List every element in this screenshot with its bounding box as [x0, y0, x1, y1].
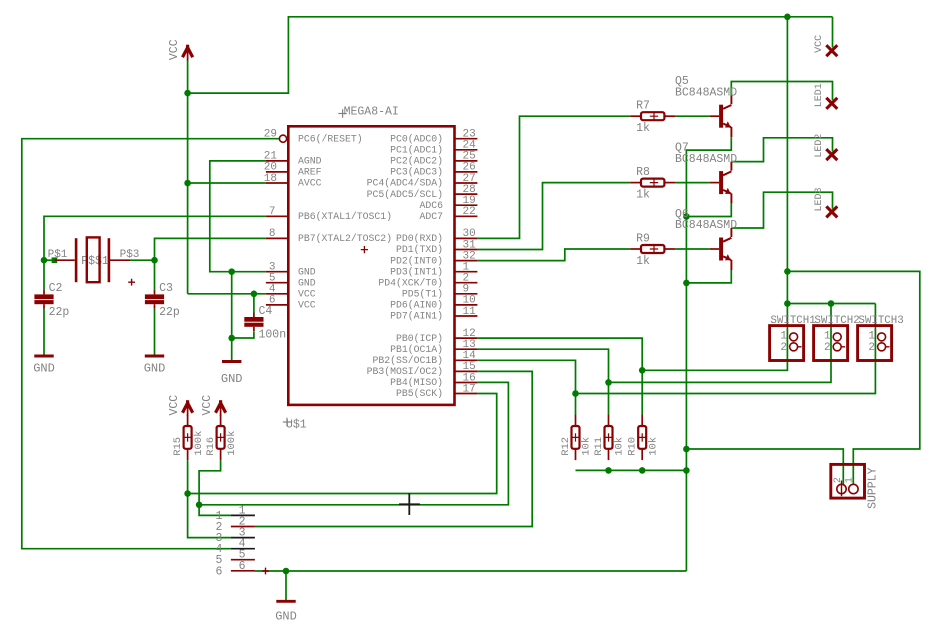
svg-text:18: 18	[264, 173, 277, 185]
svg-text:GND: GND	[144, 362, 166, 376]
wire PB0 to R10	[477, 338, 642, 415]
pin 24 PC1(ADC1) stub	[455, 149, 478, 151]
svg-text:R7: R7	[636, 100, 650, 113]
resistor R9	[630, 245, 675, 253]
wire pulldown rail	[576, 469, 687, 471]
pin 14 PB2(SS/OC1B) stub	[455, 359, 478, 361]
wire Q7 emitter	[686, 204, 731, 217]
wire R16 bottom to connector pin 1	[199, 460, 231, 515]
transistor Q6	[710, 228, 732, 270]
capacitor C2	[34, 290, 53, 308]
wire C4 bottom to GND	[232, 331, 254, 338]
svg-text:C4: C4	[259, 305, 273, 318]
junction PB1/switch2	[605, 379, 612, 386]
switch SWITCH1	[770, 326, 804, 361]
svg-text:7: 7	[269, 206, 276, 218]
transistor Q7	[710, 162, 732, 204]
svg-text:1k: 1k	[636, 122, 650, 135]
wire to bottom GND symbol	[285, 571, 287, 600]
pin 8 PB7(XTAL2/TOSC2) stub	[266, 237, 288, 239]
wire C2 to GND	[43, 308, 45, 354]
svg-text:LED2: LED2	[814, 134, 825, 158]
junction bottom GND	[283, 568, 290, 575]
svg-text:PD2(INT0): PD2(INT0)	[390, 255, 443, 266]
svg-text:100k: 100k	[193, 431, 205, 456]
svg-text:R9: R9	[636, 233, 650, 246]
svg-text:BC848ASMD: BC848ASMD	[675, 153, 737, 166]
junction AVCC	[184, 180, 191, 187]
wire GND to SUPPLY pin 2	[686, 449, 843, 484]
pin 1 PD3(INT1) stub	[455, 271, 478, 273]
svg-text:BC848ASMD: BC848ASMD	[675, 219, 737, 232]
junction R16/MISO	[196, 502, 203, 509]
junction VCC top left	[184, 90, 191, 97]
IC origin cross	[361, 246, 368, 253]
resistor R11	[605, 415, 613, 461]
net port LED3	[826, 206, 837, 217]
svg-text:10k: 10k	[581, 437, 593, 456]
pin 19 ADC6 stub	[455, 204, 478, 206]
wire switch top rail	[787, 303, 875, 305]
wire SWITCH3 to R12/PB2	[576, 304, 876, 394]
IC name origin cross	[338, 109, 346, 117]
junction XTAL2	[151, 257, 158, 264]
svg-text:PC4(ADC4/SDA): PC4(ADC4/SDA)	[367, 178, 443, 189]
pin 15 PB3(MOSI/OC2) stub	[455, 370, 478, 372]
transistor Q5	[710, 95, 732, 137]
svg-text:PB0(ICP): PB0(ICP)	[396, 333, 443, 344]
wire XTAL1 pin7 to crystal/C2	[44, 216, 266, 290]
svg-text:R11: R11	[593, 437, 605, 456]
svg-text:6: 6	[239, 560, 246, 573]
junction switch rail 1	[784, 300, 791, 307]
wire VCC symbol to junction	[187, 60, 189, 93]
svg-text:6: 6	[215, 565, 222, 578]
svg-text:2: 2	[868, 342, 875, 354]
wire VCC to SUPPLY pin 1	[787, 271, 919, 483]
svg-text:PC0(ADC0): PC0(ADC0)	[390, 133, 443, 144]
crystal P$$1	[55, 238, 130, 282]
wire VCC to top rail	[188, 17, 833, 93]
junction C4/VCC	[251, 291, 258, 298]
switch SWITCH3	[858, 326, 892, 361]
ground under C3	[145, 355, 164, 358]
svg-text:2: 2	[780, 342, 787, 354]
svg-text:PB2(SS/OC1B): PB2(SS/OC1B)	[372, 355, 443, 366]
svg-text:PD0(RXD): PD0(RXD)	[396, 233, 443, 244]
pin 21 AGND stub	[266, 160, 288, 162]
resistor R16	[217, 415, 225, 461]
svg-text:10k: 10k	[614, 437, 626, 456]
pin 22 ADC7 stub	[455, 215, 478, 217]
svg-text:PD1(TXD): PD1(TXD)	[396, 244, 443, 255]
pin 32 PD2(INT0) stub	[455, 260, 478, 262]
pin 17 PB5(SCK) stub	[455, 393, 478, 395]
svg-text:PD4(XCK/T0): PD4(XCK/T0)	[378, 277, 443, 288]
wire Q6 emitter	[686, 270, 731, 283]
wire R8 to Q7 base	[675, 182, 709, 184]
svg-text:2: 2	[833, 477, 844, 483]
svg-text:1k: 1k	[636, 189, 650, 202]
svg-text:U$1: U$1	[286, 419, 307, 432]
resistor R15	[184, 415, 192, 461]
VCC supply symbol above R15	[183, 400, 193, 413]
IC value origin cross	[283, 418, 291, 426]
pin 7 PB6(XTAL1/TOSC1) stub	[266, 215, 288, 217]
pin 2 PD4(XCK/T0) stub	[455, 282, 478, 284]
svg-text:SWITCH3: SWITCH3	[858, 315, 903, 327]
svg-text:PD6(AIN0): PD6(AIN0)	[390, 300, 443, 311]
svg-text:2: 2	[824, 342, 831, 354]
svg-text:100k: 100k	[226, 431, 238, 456]
svg-text:PC3(ADC3): PC3(ADC3)	[390, 167, 443, 178]
pin 6 VCC stub	[266, 304, 288, 306]
VCC supply symbol top left	[183, 45, 193, 58]
wire top rail to VCC port	[832, 17, 834, 48]
svg-text:BC848ASMD: BC848ASMD	[675, 86, 737, 99]
svg-text:1: 1	[868, 330, 875, 342]
svg-text:VCC: VCC	[298, 289, 316, 300]
svg-text:17: 17	[463, 383, 476, 395]
junction XTAL1	[41, 257, 48, 264]
svg-text:SWITCH1: SWITCH1	[770, 315, 815, 327]
junction R10 bottom	[639, 467, 646, 474]
wire Q6 collector to LED3	[731, 192, 832, 228]
svg-text:PC5(ADC5/SCL): PC5(ADC5/SCL)	[367, 189, 443, 200]
net port LED2	[826, 149, 837, 160]
crystal origin cross	[128, 279, 135, 286]
pin 9 PD5(T1) stub	[455, 293, 478, 295]
svg-text:PD5(T1): PD5(T1)	[402, 289, 443, 300]
sheet origin cross	[399, 493, 420, 515]
junction R15/SCK	[184, 490, 191, 497]
resistor R12	[572, 415, 580, 461]
svg-text:R8: R8	[636, 166, 650, 179]
svg-text:PC6(/RESET): PC6(/RESET)	[298, 133, 363, 144]
pin 31 PD1(TXD) stub	[455, 249, 478, 251]
svg-text:R12: R12	[560, 437, 572, 456]
ground under C2	[34, 355, 53, 358]
wire PB1 to R11	[477, 349, 608, 415]
junction GND supply	[683, 446, 690, 453]
wire VCC vertical left	[187, 93, 189, 294]
wire C4 top	[253, 294, 255, 313]
wire PB3 MOSI to connector pin 2	[255, 371, 532, 526]
pin 25 PC2(ADC2) stub	[455, 160, 478, 162]
wire AGND pin21 to GND pin3	[210, 161, 266, 272]
svg-text:VCC: VCC	[168, 395, 181, 416]
pin 28 PC5(ADC5/SCL) stub	[455, 193, 478, 195]
pin 5 GND stub	[266, 282, 288, 284]
svg-text:PB6(XTAL1/TOSC1): PB6(XTAL1/TOSC1)	[298, 211, 392, 222]
ground under C4	[222, 360, 241, 363]
wire SWITCH2 to R11/PB1	[609, 304, 832, 383]
ground bottom	[276, 600, 295, 603]
wire C3 to GND	[154, 308, 156, 354]
svg-text:MEGA8-AI: MEGA8-AI	[344, 106, 399, 119]
connector pin 6 stub	[231, 570, 255, 572]
junction Q6 emitter	[683, 280, 690, 287]
junction top rail	[784, 13, 791, 20]
pin 29 PC6(/RESET) with inversion bubble	[279, 135, 286, 142]
net port LED1	[826, 98, 837, 109]
capacitor C4	[244, 313, 263, 331]
svg-text:P$$1: P$$1	[81, 255, 109, 268]
svg-text:VCC: VCC	[168, 39, 181, 60]
junction PB2/switch3	[572, 390, 579, 397]
wire VCC pin 4	[188, 293, 266, 295]
wire Q7 collector to LED2	[731, 138, 832, 162]
svg-text:SUPPLY: SUPPLY	[866, 467, 879, 509]
resistor R7	[630, 112, 675, 120]
pin 18 AVCC stub	[266, 182, 288, 184]
svg-text:C2: C2	[49, 282, 63, 295]
resistor R8	[630, 179, 675, 187]
net port VCC	[826, 45, 837, 56]
junction R11 bottom	[605, 467, 612, 474]
svg-text:ADC6: ADC6	[419, 200, 443, 211]
wire AVCC pin 18	[188, 182, 266, 184]
wire connector pin 6 to GND net	[255, 570, 687, 572]
junction switch rail 2	[828, 300, 835, 307]
svg-text:8: 8	[269, 228, 276, 240]
svg-text:LED3: LED3	[814, 187, 825, 211]
svg-text:22p: 22p	[49, 306, 70, 319]
wire to crystal pin P$1	[44, 259, 55, 261]
crystal body rectangle	[87, 237, 100, 282]
wire to GND symbol under C4	[231, 272, 233, 360]
resistor R10	[638, 415, 646, 461]
junction rail to GND vertical	[683, 467, 690, 474]
svg-text:R15: R15	[172, 437, 184, 456]
pin 23 PC0(ADC0) stub	[455, 138, 478, 140]
pin 3 GND stub	[266, 271, 288, 273]
svg-text:P$3: P$3	[120, 249, 140, 261]
svg-text:P$1: P$1	[48, 249, 68, 261]
svg-text:PD3(INT1): PD3(INT1)	[390, 266, 443, 277]
svg-text:GND: GND	[275, 610, 297, 624]
capacitor C3	[145, 290, 164, 308]
wire PB5 SCK to R15 node	[188, 394, 497, 494]
svg-text:PB7(XTAL2/TOSC2): PB7(XTAL2/TOSC2)	[298, 233, 392, 244]
junction Q7 emitter	[683, 213, 690, 220]
svg-text:PC1(ADC1): PC1(ADC1)	[390, 145, 443, 156]
wire Q5 collector to LED1	[731, 82, 832, 101]
pin 13 PB1(OC1A) stub	[455, 348, 478, 350]
wire R15 bottom to connector pin 3	[188, 460, 231, 537]
svg-text:GND: GND	[221, 372, 243, 386]
pin 27 PC4(ADC4/SDA) stub	[455, 182, 478, 184]
wire Q5 emitter down GND vertical	[686, 137, 731, 571]
wire PD2 to R9	[477, 249, 630, 261]
svg-text:VCC: VCC	[814, 35, 825, 53]
svg-text:PB4(MISO): PB4(MISO)	[390, 377, 443, 388]
pin 12 PB0(ICP) stub	[455, 337, 478, 339]
pin 30 PD0(RXD) stub	[455, 237, 478, 239]
wire PD0 to R7	[477, 116, 630, 238]
svg-text:AGND: AGND	[298, 156, 322, 167]
svg-text:PB1(OC1A): PB1(OC1A)	[390, 344, 443, 355]
svg-text:LED1: LED1	[814, 83, 825, 107]
wire SWITCH1 to R10/PB0	[642, 304, 787, 371]
switch SWITCH2	[814, 326, 848, 361]
pin 16 PB4(MISO) stub	[455, 382, 478, 384]
connector SUPPLY	[831, 464, 865, 498]
svg-text:1: 1	[824, 330, 831, 342]
svg-text:22: 22	[463, 206, 476, 218]
svg-text:PD7(AIN1): PD7(AIN1)	[390, 311, 443, 322]
svg-text:SWITCH2: SWITCH2	[814, 315, 859, 327]
svg-text:22p: 22p	[159, 306, 180, 319]
svg-text:VCC: VCC	[201, 395, 214, 416]
svg-text:29: 29	[264, 129, 277, 141]
svg-text:VCC: VCC	[298, 300, 316, 311]
svg-text:1k: 1k	[636, 255, 650, 268]
pin 10 PD6(AIN0) stub	[455, 304, 478, 306]
wire VCC right vertical	[786, 17, 788, 304]
svg-text:AVCC: AVCC	[298, 178, 322, 189]
connector pin 5 stub	[231, 559, 255, 561]
svg-text:ADC7: ADC7	[419, 211, 443, 222]
pin 26 PC3(ADC3) stub	[455, 171, 478, 173]
svg-text:PB5(SCK): PB5(SCK)	[396, 388, 443, 399]
connector pin 3 stub	[231, 537, 255, 539]
svg-text:GND: GND	[298, 277, 316, 288]
svg-text:R16: R16	[205, 437, 217, 456]
wire PD1 to R8	[477, 183, 630, 250]
svg-text:1: 1	[845, 477, 856, 483]
connector pin 1 stub	[231, 514, 255, 516]
wire R7 to Q5 base	[675, 115, 709, 117]
svg-text:C3: C3	[159, 282, 173, 295]
bottom ground origin cross	[262, 568, 269, 575]
wire PB2 to R12	[477, 360, 575, 414]
wire RESET pin29 to connector pin 4	[22, 139, 279, 549]
VCC supply symbol above R16	[216, 400, 226, 413]
connector pin 2 stub	[231, 526, 255, 528]
IC U$1 MEGA8-AI body	[288, 126, 454, 405]
svg-text:100n: 100n	[259, 329, 287, 342]
svg-text:10k: 10k	[647, 437, 659, 456]
svg-text:1: 1	[780, 330, 787, 342]
junction VCC right vertical to supply	[784, 268, 791, 275]
svg-text:11: 11	[463, 306, 477, 318]
pin 20 AREF stub	[266, 171, 288, 173]
junction PB0/switch1	[639, 367, 646, 374]
wire PB4 MISO to R16 node	[199, 382, 508, 504]
pin 4 VCC stub	[266, 293, 288, 295]
pin 11 PD7(AIN1) stub	[455, 315, 478, 317]
junction GND pin3	[228, 268, 235, 275]
junction C4 bottom	[228, 335, 235, 342]
wire crystal pin P$3	[130, 259, 155, 261]
connector pin 4 stub	[231, 548, 255, 550]
svg-text:PC2(ADC2): PC2(ADC2)	[390, 156, 443, 167]
wire R9 to Q6 base	[675, 248, 709, 250]
wire XTAL2 pin8 to crystal/C3	[155, 238, 266, 290]
svg-text:AREF: AREF	[298, 167, 322, 178]
svg-text:GND: GND	[298, 266, 316, 277]
svg-text:R10: R10	[627, 437, 639, 456]
svg-text:GND: GND	[33, 362, 55, 376]
svg-text:PB3(MOSI/OC2): PB3(MOSI/OC2)	[367, 366, 443, 377]
